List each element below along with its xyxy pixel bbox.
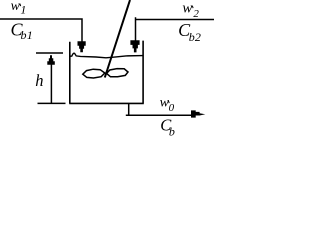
svg-text:b: b — [21, 28, 27, 42]
wire outlet — [126, 103, 192, 115]
svg-text:w: w — [11, 0, 21, 14]
tank walls — [69, 41, 144, 104]
svg-text:0: 0 — [169, 102, 175, 114]
h dimension arrow — [47, 55, 55, 65]
impeller right blade — [107, 69, 128, 77]
svg-text:2: 2 — [193, 8, 199, 20]
svg-text:b: b — [169, 125, 175, 136]
h dimension vertical line — [50, 62, 52, 103]
impeller left blade — [83, 69, 105, 78]
h dimension top tick — [36, 52, 63, 54]
label w1 — [19, 4, 22, 7]
svg-text:2: 2 — [195, 30, 201, 44]
svg-text:h: h — [35, 71, 43, 90]
wire w2 feed line — [136, 17, 215, 41]
arrow outlet arrowhead — [191, 110, 205, 117]
svg-text:1: 1 — [27, 28, 33, 42]
svg-text:1: 1 — [20, 2, 26, 16]
h dimension bottom tick — [38, 102, 66, 104]
stirrer shaft — [105, 0, 130, 78]
label w2 — [191, 6, 194, 9]
label w0 — [167, 101, 170, 104]
svg-text:b: b — [189, 30, 195, 44]
svg-text:w: w — [182, 0, 192, 16]
liquid surface — [70, 53, 143, 58]
arrow w1 inlet arrowhead — [78, 41, 86, 52]
arrow w2 inlet arrowhead — [130, 40, 139, 52]
wire w1 feed line — [0, 19, 82, 42]
